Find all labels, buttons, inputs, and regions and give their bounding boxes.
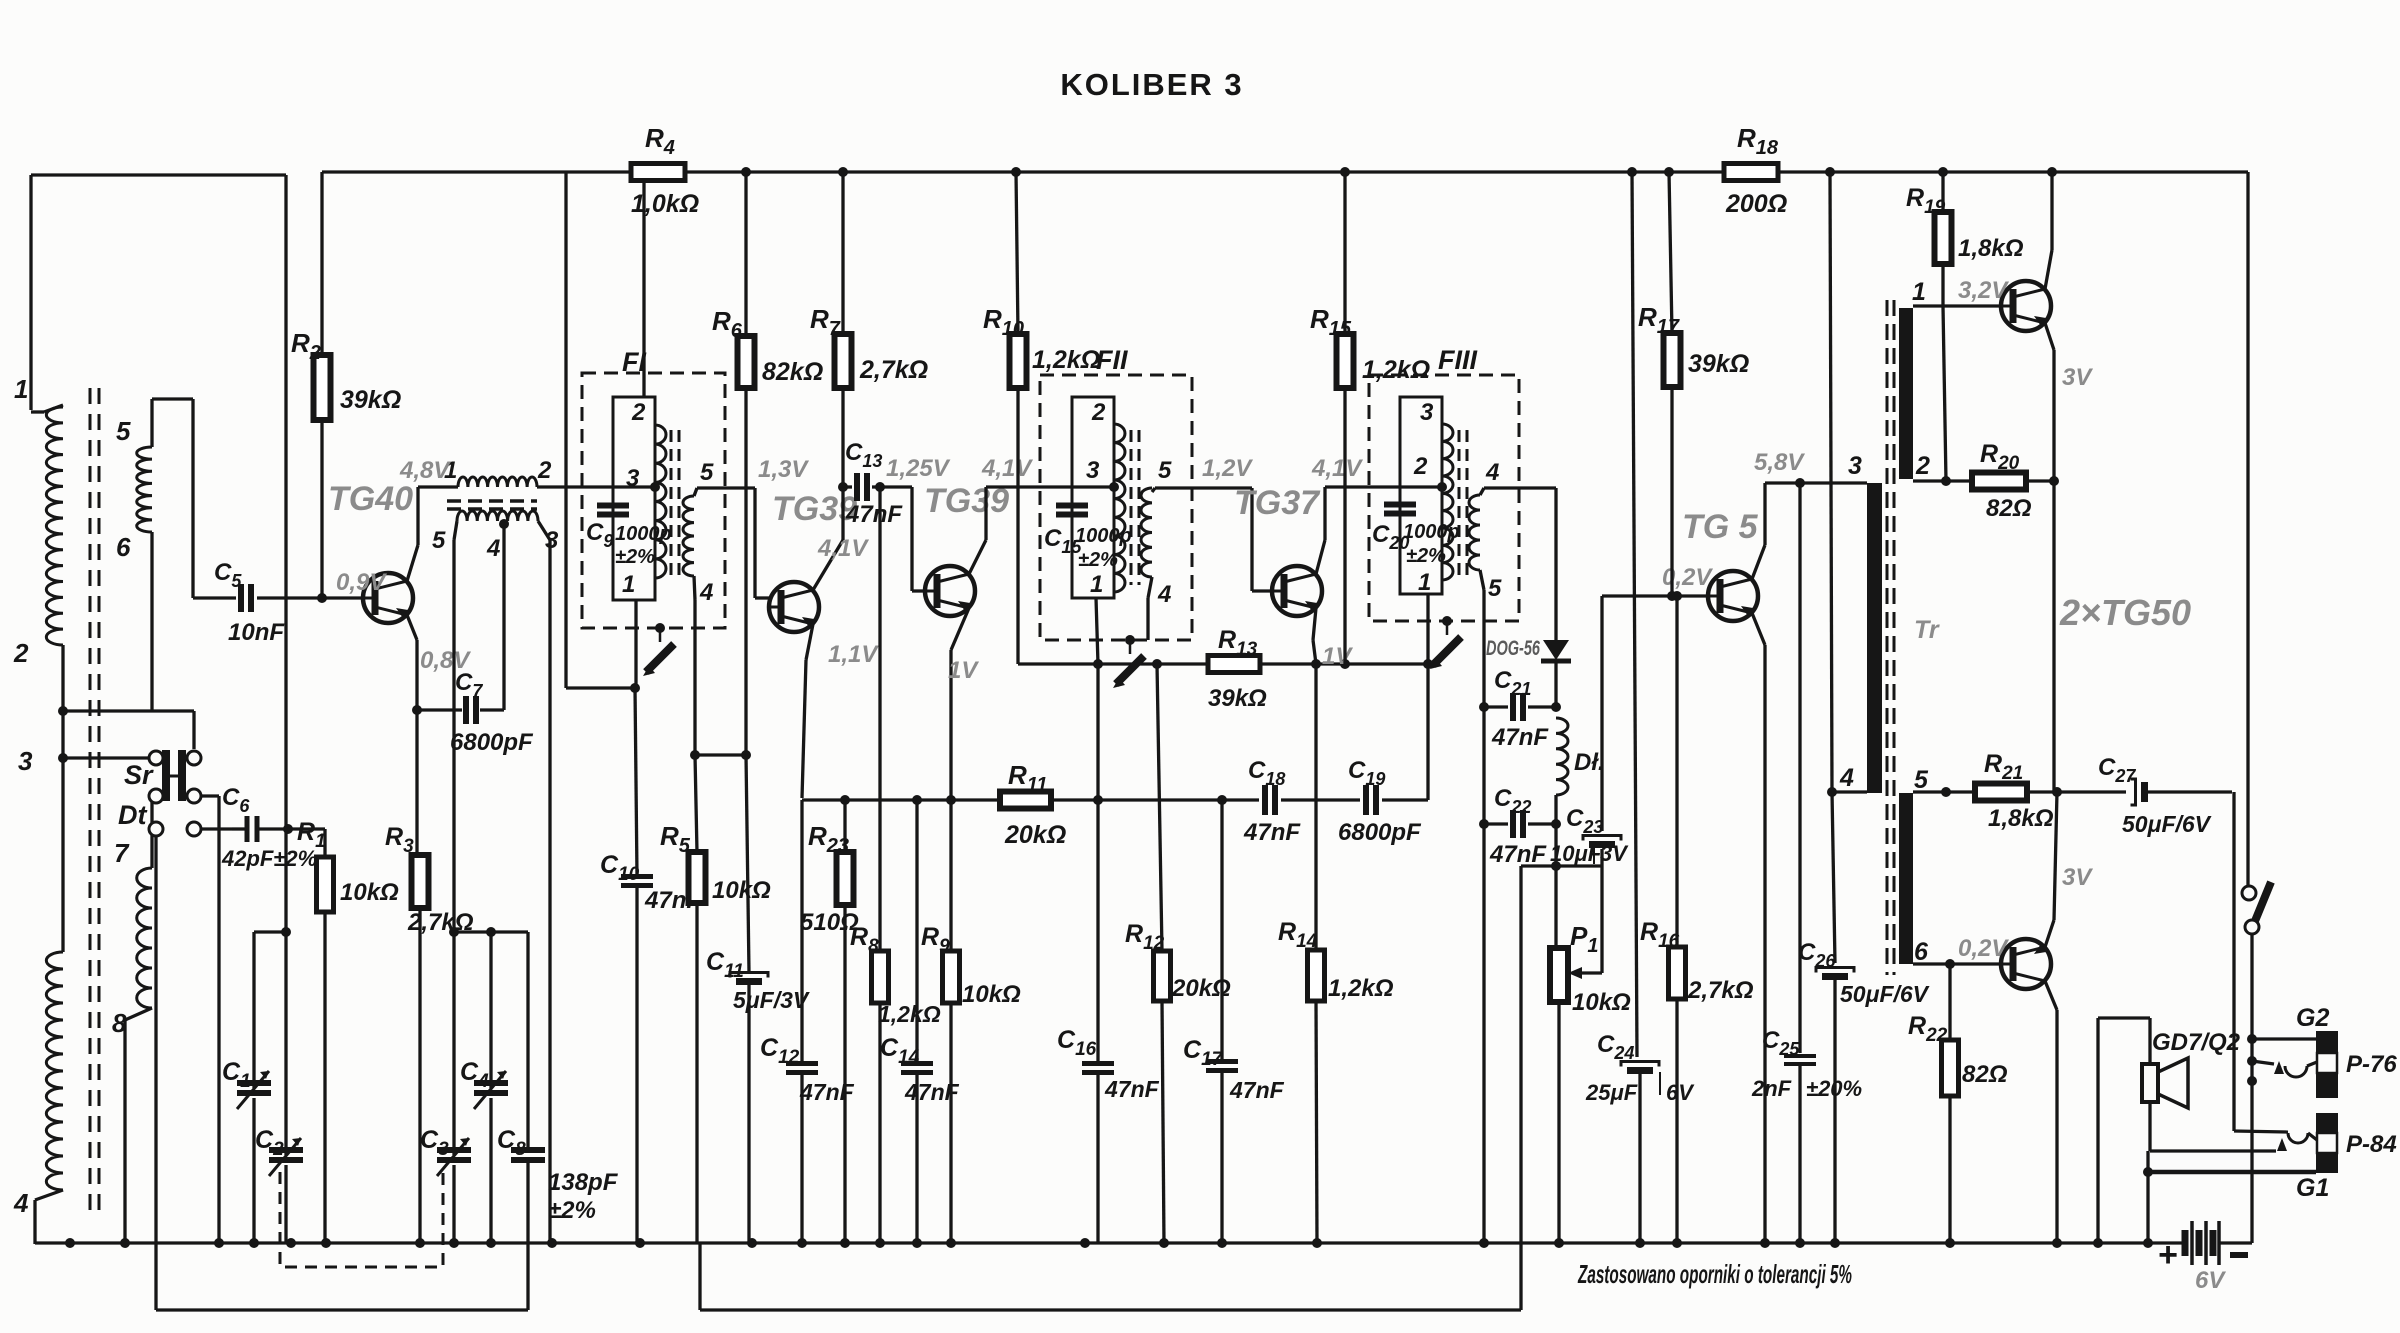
wire bias link: [695, 753, 746, 756]
svg-text:3V: 3V: [2062, 364, 2093, 391]
svg-text:47nF: 47nF: [1489, 841, 1547, 868]
svg-text:4,1V: 4,1V: [817, 535, 869, 562]
pin 1 label: [622, 571, 635, 598]
wire Tr pin4: [1827, 787, 1867, 797]
pin 5 label: [1158, 457, 1172, 484]
svg-text:4: 4: [699, 579, 713, 606]
pin 2 label: [13, 638, 29, 668]
svg-text:±2%: ±2%: [1406, 545, 1446, 567]
wire rail to FI pin1 node: [566, 172, 640, 693]
capacitor C18: [1222, 757, 1360, 846]
FIII winding frame: [1400, 397, 1442, 594]
FIII primary coil: [1442, 424, 1453, 580]
wire TG50-2 collector: [2045, 981, 2057, 1244]
svg-text:TG37: TG37: [1234, 484, 1321, 522]
svg-text:1000p: 1000p: [1075, 525, 1132, 547]
svg-text:1,1V: 1,1V: [828, 641, 879, 668]
wire FII pin5 to TG37 base: [1152, 488, 1272, 591]
wire detector node: [700, 795, 1561, 1310]
resistor R16: [1640, 591, 1754, 1244]
svg-text:G2: G2: [2296, 1004, 2329, 1032]
note tolerances: [1577, 1259, 1852, 1289]
transistor TG39-2: [925, 566, 975, 616]
transistor TG40: [363, 573, 413, 623]
coupling coil L3 pins 5-6: [137, 447, 152, 532]
resistor R6: [712, 172, 823, 760]
capacitor C7: [417, 527, 534, 756]
switch Sr: [149, 750, 201, 836]
svg-text:2: 2: [631, 399, 646, 426]
svg-text:82kΩ: 82kΩ: [762, 358, 823, 386]
capacitor C25: [1751, 483, 1862, 1244]
node after C13: [875, 482, 885, 492]
svg-text:7: 7: [114, 838, 130, 868]
label Tr: [1914, 616, 1940, 644]
svg-text:6: 6: [1914, 938, 1929, 966]
transistor TG50-1: [2001, 281, 2051, 331]
svg-text:4: 4: [13, 1188, 29, 1218]
svg-text:6800pF: 6800pF: [1338, 819, 1422, 846]
capacitor C24: [1585, 172, 1695, 1244]
resistor R20: [1946, 440, 2059, 522]
capacitor C15: [1044, 506, 1132, 572]
transformer Tr core: [1887, 300, 1894, 975]
label 4,1V: [817, 535, 869, 562]
wire Tr pin2 to R20: [1913, 476, 1951, 486]
wire to TG39-2 base: [880, 487, 925, 591]
svg-text:1,8kΩ: 1,8kΩ: [1988, 805, 2054, 832]
transformer Tr secondary top bar: [1899, 308, 1913, 479]
wire FI pin1 bottom: [634, 600, 637, 688]
variable capacitor C2: [255, 1126, 303, 1244]
wire TG5 collector: [1752, 478, 1867, 579]
label G1: [2296, 1174, 2329, 1202]
svg-text:39kΩ: 39kΩ: [1208, 685, 1267, 712]
wire FII pin1 bottom: [1096, 598, 1098, 664]
oscillator transformer core: [447, 501, 537, 509]
svg-text:Dł.: Dł.: [1574, 749, 1605, 776]
transistor TG39-1: [769, 582, 819, 632]
wire right rail to switch: [2248, 172, 2252, 1243]
pin 3 label: [1420, 399, 1434, 426]
svg-text:0,2V: 0,2V: [1958, 935, 2009, 962]
svg-text:1000p: 1000p: [1403, 521, 1460, 543]
resistor R4: [631, 123, 699, 218]
svg-text:3: 3: [1420, 399, 1434, 426]
label 5,8V: [1754, 449, 1805, 476]
wire osc pin5 to ground: [449, 521, 459, 1155]
node TG40 base: [317, 593, 327, 603]
pin 5 label: [1914, 766, 1929, 794]
wire G1 line: [2148, 1170, 2316, 1175]
oscillator coupling coil L4 pins 7-8: [137, 868, 152, 1008]
jack G2 P-76: [2247, 1031, 2338, 1098]
resistor R3: [385, 823, 474, 1244]
label 0,2V: [1662, 564, 1713, 591]
resistor R14: [1278, 664, 1394, 1244]
svg-text:510Ω: 510Ω: [800, 909, 859, 936]
svg-text:1,2kΩ: 1,2kΩ: [1032, 346, 1100, 374]
svg-text:2: 2: [1413, 453, 1428, 480]
pin 4 label: [699, 579, 713, 606]
svg-text:5: 5: [700, 459, 714, 486]
svg-text:3: 3: [1086, 457, 1100, 484]
svg-text:2,7kΩ: 2,7kΩ: [1687, 977, 1754, 1004]
svg-text:39kΩ: 39kΩ: [1688, 350, 1749, 378]
svg-text:TG 5: TG 5: [1682, 508, 1759, 546]
wire 932 link right: [454, 927, 528, 937]
label P-84: [2346, 1131, 2397, 1158]
potentiometer P1: [1550, 866, 1631, 1016]
FII winding frame: [1072, 397, 1114, 598]
wire C27 to jack P-84: [2234, 792, 2288, 1132]
svg-text:47nF: 47nF: [1243, 819, 1301, 846]
svg-text:P-84: P-84: [2346, 1131, 2397, 1158]
label 3V top: [2062, 364, 2093, 391]
svg-text:47nF: 47nF: [1104, 1076, 1160, 1102]
svg-text:6: 6: [116, 532, 131, 562]
pin 1 label: [1912, 278, 1926, 306]
node FII pin3: [1109, 482, 1119, 492]
svg-text:2×TG50: 2×TG50: [2059, 592, 2191, 633]
resistor R13: [1208, 626, 1267, 712]
svg-text:1: 1: [1418, 569, 1431, 596]
wire AGC supply line: [1018, 659, 1428, 669]
variable capacitor C4: [460, 932, 508, 1244]
svg-text:47nF: 47nF: [904, 1079, 960, 1105]
FII primary coil: [1114, 424, 1125, 592]
label TG39: [924, 482, 1009, 520]
svg-text:6V: 6V: [2195, 1267, 2226, 1294]
pin 2 label: [1915, 452, 1930, 480]
resistor R11: [1000, 760, 1103, 849]
speaker GD7/Q2: [2142, 1058, 2188, 1108]
label 4,1V: [981, 455, 1033, 482]
wire TG39-1 emitter: [802, 624, 813, 798]
FIII tuning arrow: [1430, 616, 1461, 669]
svg-text:4: 4: [1839, 764, 1854, 792]
IF transformer FIII box: [1369, 375, 1519, 621]
svg-text:1: 1: [1912, 278, 1926, 306]
capacitor C22: [1484, 785, 1561, 868]
pin 6 label: [1914, 938, 1929, 966]
label 1,3V: [758, 456, 809, 483]
pin 4 label: [1839, 764, 1854, 792]
wire coil L2 to bus: [35, 1190, 63, 1244]
label 4,8V: [399, 457, 451, 484]
label FI: [622, 347, 646, 377]
capacitor C17: [1183, 800, 1285, 1244]
wire battery negative return: [2219, 1241, 2252, 1244]
svg-text:1: 1: [1090, 571, 1103, 598]
label TG39: [772, 490, 857, 528]
capacitor C19: [1338, 659, 1433, 846]
FII core: [1131, 430, 1139, 585]
wire TG40 emitter: [407, 615, 422, 855]
FI tuning arrow: [643, 623, 674, 676]
svg-text:1,25V: 1,25V: [886, 455, 951, 482]
wire speaker top: [2098, 1018, 2150, 1244]
svg-text:0,2V: 0,2V: [1662, 564, 1713, 591]
wire coil junction: [58, 645, 68, 952]
svg-text:47nF: 47nF: [1229, 1077, 1285, 1103]
choke Dl: [1556, 718, 1605, 795]
wire Tr pin1 to TG50-1 base: [1913, 304, 2001, 307]
capacitor C10: [600, 688, 702, 1244]
node C6-R1: [283, 824, 325, 834]
svg-text:4: 4: [1157, 581, 1171, 608]
capacitor C23: [1550, 596, 1629, 866]
label P-76: [2346, 1051, 2397, 1078]
svg-text:2: 2: [13, 638, 29, 668]
node FIII pin2: [1437, 482, 1447, 492]
pin 7 label: [114, 838, 130, 868]
diode DOG-56: [1541, 640, 1571, 712]
svg-text:200Ω: 200Ω: [1725, 190, 1787, 218]
label 1,2V: [1202, 455, 1253, 482]
wire TG37 emitter: [1313, 608, 1316, 664]
pin 5 label: [700, 459, 714, 486]
transformer Tr secondary bottom bar: [1899, 793, 1913, 964]
wire FI pin5 to TG39 base: [694, 488, 769, 598]
wire FIII pin1 bottom: [1426, 594, 1429, 664]
wire switch low left to LW loop: [156, 836, 528, 1310]
svg-text:5: 5: [432, 527, 446, 554]
svg-text:1: 1: [14, 374, 28, 404]
wire P1 to ground: [1557, 1002, 1560, 1244]
wire TG39-2 emitter: [951, 608, 969, 798]
svg-text:5: 5: [116, 416, 131, 446]
wire C1 link: [254, 932, 286, 1088]
resistor R10: [983, 172, 1100, 664]
svg-text:1,0kΩ: 1,0kΩ: [631, 190, 699, 218]
svg-text:47nF: 47nF: [1491, 724, 1549, 751]
svg-text:2: 2: [1091, 399, 1106, 426]
svg-text:FII: FII: [1096, 345, 1128, 375]
wire TG39-1 collector: [813, 487, 843, 590]
capacitor C5: [193, 559, 363, 646]
pin 4 label: [1157, 581, 1171, 608]
wire FIII pin4 to detector: [1480, 488, 1556, 642]
svg-text:G1: G1: [2296, 1174, 2329, 1202]
svg-text:47nF: 47nF: [845, 501, 903, 528]
capacitor C27: [2057, 754, 2232, 837]
switch Dt label: [118, 800, 147, 830]
wire FIII pin5 down: [1479, 570, 1489, 1244]
label G2: [2296, 1004, 2329, 1032]
svg-text:50μF/6V: 50μF/6V: [2122, 811, 2212, 837]
svg-text:±2%: ±2%: [615, 546, 655, 568]
wire osc pin2 to FI: [537, 485, 655, 488]
wire antenna to C2 line: [281, 828, 291, 1155]
power switch: [2242, 882, 2271, 934]
resistor R1: [297, 818, 399, 1244]
svg-text:Dt: Dt: [118, 800, 147, 830]
label FIII: [1438, 345, 1477, 375]
svg-text:4: 4: [1485, 459, 1499, 486]
resistor R22: [1908, 964, 2008, 1244]
wire FI pin4 to bias node: [690, 576, 700, 760]
FI winding frame: [613, 397, 655, 600]
oscillator transformer secondary: [457, 511, 538, 529]
transistor TG50-2: [2001, 939, 2051, 989]
svg-text:4,1V: 4,1V: [981, 455, 1033, 482]
svg-text:±2%: ±2%: [548, 1197, 596, 1224]
gang link C2-C3: [280, 1172, 443, 1267]
svg-text:DOG-56: DOG-56: [1486, 637, 1540, 660]
pin 2 label: [537, 457, 552, 484]
IF transformer FII box: [1040, 375, 1192, 640]
FIII secondary coil: [1469, 495, 1480, 570]
pin 4 label: [1485, 459, 1499, 486]
resistor R15: [1310, 172, 1430, 664]
wire TG5 base line: [1602, 591, 1708, 601]
wire C16 riser: [1096, 664, 1099, 800]
resistor R18: [1724, 123, 1787, 218]
svg-text:KOLIBER 3: KOLIBER 3: [1060, 67, 1243, 102]
svg-text:5: 5: [1914, 766, 1929, 794]
transistor TG37: [1272, 566, 1322, 616]
label 0,2V: [1958, 935, 2009, 962]
resistor R7: [810, 172, 928, 492]
svg-text:6V: 6V: [1666, 1080, 1695, 1105]
wire TG40 collector: [407, 487, 418, 581]
wire R18 to Tr pin4: [1830, 172, 1832, 792]
svg-text:1,2kΩ: 1,2kΩ: [1328, 975, 1394, 1002]
wire Tr pin5 to R21: [1913, 787, 1975, 797]
antenna coil L1 pins 1-2: [31, 405, 63, 645]
label TG37: [1234, 484, 1321, 522]
resistor R2: [291, 172, 401, 598]
svg-text:5μF/3V: 5μF/3V: [733, 987, 810, 1013]
svg-text:3: 3: [1848, 452, 1862, 480]
capacitor C16: [1057, 800, 1160, 1244]
resistor R8: [850, 487, 941, 1244]
svg-text:1V: 1V: [1322, 643, 1353, 670]
pin 4 label: [486, 535, 500, 562]
svg-text:1: 1: [622, 571, 635, 598]
wire TG50-1 collector: [2045, 172, 2052, 289]
svg-text:25μF: 25μF: [1585, 1080, 1638, 1105]
pin 2 label: [1091, 399, 1106, 426]
capacitor C9: [586, 506, 672, 569]
svg-text:3: 3: [626, 465, 640, 492]
pin 5 label: [1488, 575, 1502, 602]
svg-text:0,9V: 0,9V: [336, 569, 387, 596]
svg-text:39kΩ: 39kΩ: [340, 386, 401, 414]
FII secondary coil: [1141, 488, 1152, 577]
switch Sr label: [124, 760, 154, 790]
label 1,25V: [886, 455, 951, 482]
jack G1 P-84: [2277, 1113, 2338, 1173]
FI secondary coil: [683, 496, 694, 576]
capacitor C21: [1484, 667, 1556, 751]
svg-text:1,8kΩ: 1,8kΩ: [1958, 235, 2024, 262]
svg-text:Sr: Sr: [124, 760, 154, 790]
pin 1 label: [1090, 571, 1103, 598]
wire emitter bias line: [802, 795, 1000, 805]
svg-text:2,7kΩ: 2,7kΩ: [859, 356, 928, 384]
capacitor C12: [760, 800, 855, 1244]
FI core: [671, 430, 679, 580]
svg-text:1,2kΩ: 1,2kΩ: [878, 1001, 941, 1027]
pin 5 label: [116, 416, 131, 446]
wire FI pin2 to R4: [642, 181, 645, 397]
wire pin8 to bus: [125, 1008, 152, 1244]
svg-text:50μF/6V: 50μF/6V: [1840, 981, 1930, 1007]
IF transformer FI box: [582, 373, 725, 628]
svg-text:10kΩ: 10kΩ: [1572, 989, 1631, 1016]
wire antenna tap line: [63, 711, 194, 749]
ferrite rod: [90, 388, 99, 1212]
label GD7/Q2: [2152, 1029, 2241, 1056]
wire pin6 down: [150, 532, 153, 711]
capacitor C26: [1798, 792, 1930, 1244]
node FI pin3: [650, 482, 660, 492]
label FII: [1096, 345, 1128, 375]
svg-text:2: 2: [1915, 452, 1930, 480]
svg-text:2: 2: [537, 457, 552, 484]
variable capacitor C1: [222, 1058, 271, 1244]
wire top supply rail: [322, 167, 2248, 177]
svg-text:42pF±2%: 42pF±2%: [221, 846, 317, 871]
wire Tr pin6 to TG50-2 base: [1913, 959, 2001, 969]
pin 2 label: [631, 399, 646, 426]
capacitor C20: [1372, 505, 1460, 568]
wire FII pin4 down: [1148, 577, 1152, 640]
svg-text:5: 5: [1488, 575, 1502, 602]
svg-text:Tr: Tr: [1914, 616, 1940, 644]
variable capacitor C3: [420, 1126, 471, 1244]
oscillator transformer primary: [418, 477, 537, 487]
resistor R17: [1638, 172, 1749, 596]
antenna coil L2 pins 3-4: [46, 952, 63, 1190]
label DOG-56: [1486, 637, 1540, 660]
capacitor C8: [497, 932, 619, 1310]
svg-text:3V: 3V: [2062, 864, 2093, 891]
wire TG39-2 collector: [969, 487, 1116, 574]
wire bottom ground bus: [35, 1238, 2185, 1248]
resistor R19: [1906, 172, 2024, 481]
FI primary coil: [655, 425, 666, 578]
pin 3 label: [18, 746, 33, 776]
pin 3 label: [545, 527, 559, 554]
svg-text:Zastosowano oporniki o toleran: Zastosowano oporniki o tolerancji 5%: [1577, 1259, 1852, 1289]
wire switch mid right to ground: [201, 796, 219, 1244]
svg-text:10nF: 10nF: [228, 619, 285, 646]
svg-text:FIII: FIII: [1438, 345, 1477, 375]
svg-text:2nF: 2nF: [1751, 1076, 1792, 1101]
svg-text:3: 3: [18, 746, 33, 776]
label 2xTG50: [2059, 592, 2191, 633]
svg-text:1,3V: 1,3V: [758, 456, 809, 483]
pin 5 label: [432, 527, 446, 554]
label 3,2V: [1958, 277, 2009, 304]
svg-text:82Ω: 82Ω: [1962, 1061, 2008, 1088]
label 4,1V: [1311, 455, 1363, 482]
svg-text:4: 4: [486, 535, 500, 562]
svg-text:+: +: [2158, 1236, 2178, 1274]
wire TG5 emitter: [1752, 613, 1765, 1244]
svg-text:10kΩ: 10kΩ: [962, 981, 1021, 1008]
transistor TG5: [1708, 571, 1758, 621]
wire TG37 collector: [1316, 487, 1444, 574]
wire switch low right to C6: [201, 827, 232, 830]
label 1V: [948, 657, 979, 684]
FIII core: [1459, 430, 1467, 578]
resistor R21: [1975, 750, 2062, 832]
wire emitter rail: [2052, 481, 2055, 792]
